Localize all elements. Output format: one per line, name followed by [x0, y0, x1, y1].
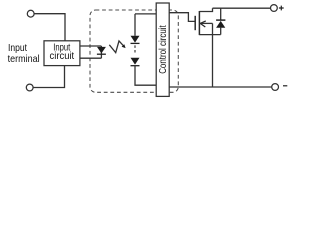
wire: photodiode stack upper segment	[134, 14, 136, 36]
svg-text:Control circuit: Control circuit	[158, 25, 169, 74]
dashed SSR enclosure (optocoupler/control boundary)	[90, 10, 178, 92]
MOSFET Q1 body lead with substrate arrow	[199, 21, 212, 27]
Input circuit box	[44, 41, 80, 66]
polarity label -	[283, 85, 287, 87]
photodiode D2 (top of photovoltaic stack)	[131, 36, 140, 44]
wire: input box to LED cathode (bottom rail)	[80, 57, 102, 59]
wire: photodiode stack top to control circuit	[135, 13, 156, 15]
wire: top-left terminal to Input circuit box top	[34, 14, 65, 41]
wire: output return rail to - terminal	[169, 86, 272, 88]
LED D1 (optocoupler emitter)	[97, 46, 106, 58]
MOSFET Q1 source lead	[199, 34, 220, 36]
wire: photodiode stack bottom to control circuit	[135, 65, 156, 85]
wire: drain to + output terminal (top rail)	[213, 7, 271, 9]
MOSFET Q1 channel bar	[198, 11, 200, 35]
wire: bottom-left terminal to Input circuit box bottom	[33, 66, 65, 88]
wire: source junction down to output return	[212, 23, 214, 87]
output terminal + (top right)	[271, 5, 278, 12]
polarity label +	[279, 6, 284, 11]
input terminal (bottom left)	[26, 84, 33, 91]
photodiode D3 (bottom of photovoltaic stack)	[131, 58, 140, 66]
MOSFET Q1 drain lead	[199, 8, 212, 11]
Control circuit box	[156, 3, 169, 96]
svg-text:terminal: terminal	[8, 54, 40, 65]
MOSFET Q1 gate bar	[194, 16, 196, 30]
svg-text:Input: Input	[8, 43, 27, 54]
wire: control circuit to MOSFET gate (with jog)	[169, 13, 195, 22]
light emission arrow (zigzag)	[109, 41, 125, 53]
wire: input box to LED anode (top rail)	[80, 45, 102, 47]
dashed wire: continuation of photodiode stack	[134, 45, 136, 53]
body diode D4 (across MOSFET output)	[216, 8, 225, 35]
output terminal - (bottom right)	[272, 84, 279, 91]
Input terminal label	[8, 43, 40, 65]
svg-text:circuit: circuit	[50, 51, 75, 62]
input terminal (top left)	[27, 10, 34, 17]
